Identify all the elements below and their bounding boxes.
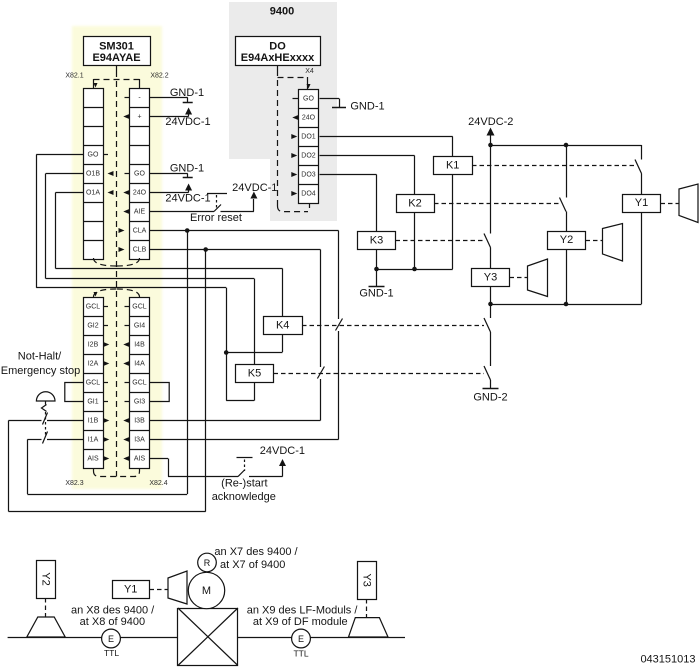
svg-text:E: E [298,634,304,644]
svg-text:GCL: GCL [86,380,101,387]
svg-text:TTL: TTL [104,648,119,658]
svg-text:GCL: GCL [132,304,147,311]
svg-text:Error reset: Error reset [190,212,242,224]
svg-text:AIS: AIS [87,456,99,463]
svg-text:GND-1: GND-1 [170,163,204,175]
svg-text:GND-1: GND-1 [170,87,204,99]
svg-text:Y3: Y3 [484,272,497,284]
svg-text:K2: K2 [408,198,421,210]
svg-text:Emergency stop: Emergency stop [1,365,80,377]
svg-text:O1A: O1A [86,190,100,197]
svg-text:M: M [202,585,211,597]
svg-text:I2A: I2A [88,361,99,368]
svg-text:Y1: Y1 [635,197,648,209]
svg-text:GI2: GI2 [87,323,98,330]
svg-text:24VDC-2: 24VDC-2 [468,116,513,128]
svg-text:X82.1: X82.1 [65,73,83,80]
svg-text:CLB: CLB [133,247,147,254]
svg-text:Y1: Y1 [124,584,137,596]
svg-text:K1: K1 [446,160,459,172]
svg-text:DO1: DO1 [301,134,316,141]
svg-text:I1B: I1B [88,418,99,425]
svg-text:E94AxHExxxx: E94AxHExxxx [241,52,315,64]
svg-text:K3: K3 [370,235,383,247]
svg-text:+: + [137,114,141,121]
svg-text:GND-1: GND-1 [359,288,393,300]
svg-text:GND-2: GND-2 [473,392,507,404]
svg-text:CLA: CLA [133,228,147,235]
svg-text:24VDC-1: 24VDC-1 [232,182,277,194]
svg-text:acknowledge: acknowledge [212,491,276,503]
svg-text:DO: DO [269,41,286,53]
svg-text:GO: GO [88,152,99,159]
svg-text:GCL: GCL [132,380,147,387]
svg-text:GND-1: GND-1 [350,101,384,113]
svg-text:AIE: AIE [134,209,146,216]
svg-text:X4: X4 [305,68,314,75]
svg-text:R: R [204,558,211,568]
svg-text:Y2: Y2 [560,234,573,246]
svg-text:043151013: 043151013 [640,653,695,665]
svg-text:24VDC-1: 24VDC-1 [165,193,210,205]
svg-text:DO2: DO2 [301,153,316,160]
svg-text:I3A: I3A [134,437,145,444]
svg-text:I4B: I4B [134,342,145,349]
svg-text:K4: K4 [276,320,289,332]
svg-text:SM301: SM301 [99,41,134,53]
svg-text:GI4: GI4 [134,323,145,330]
svg-text:GO: GO [303,96,314,103]
svg-text:GO: GO [134,171,145,178]
svg-text:AIS: AIS [134,456,146,463]
svg-text:Y2: Y2 [40,572,52,585]
svg-text:GCL: GCL [86,304,101,311]
svg-text:at X8 of 9400: at X8 of 9400 [80,616,145,628]
svg-text:at X9 of DF module: at X9 of DF module [253,616,348,628]
svg-text:DO3: DO3 [301,172,316,179]
svg-text:(Re-)start: (Re-)start [221,478,267,490]
svg-text:24VDC-1: 24VDC-1 [165,116,210,128]
svg-text:at X7 of 9400: at X7 of 9400 [220,559,285,571]
svg-text:24VDC-1: 24VDC-1 [260,445,305,457]
svg-text:Not-Halt/: Not-Halt/ [18,351,62,363]
svg-text:DO4: DO4 [301,191,316,198]
svg-text:9400: 9400 [270,6,294,18]
svg-text:I2B: I2B [88,342,99,349]
svg-text:TTL: TTL [293,649,308,659]
svg-text:X82.2: X82.2 [150,73,168,80]
svg-text:I4A: I4A [134,361,145,368]
svg-text:an X7 des 9400 /: an X7 des 9400 / [214,546,298,558]
svg-text:I1A: I1A [88,437,99,444]
svg-text:K5: K5 [248,368,261,380]
svg-text:I3B: I3B [134,418,145,425]
svg-text:E: E [108,634,114,644]
svg-text:GI3: GI3 [134,399,145,406]
svg-text:Y3: Y3 [361,573,373,586]
svg-text:E94AYAE: E94AYAE [92,52,140,64]
svg-text:X82.4: X82.4 [149,480,167,487]
svg-text:24O: 24O [302,115,316,122]
svg-text:an X8 des 9400 /: an X8 des 9400 / [71,604,155,616]
svg-text:GI1: GI1 [87,399,98,406]
svg-text:X82.3: X82.3 [65,480,83,487]
svg-text:24O: 24O [133,190,147,197]
svg-text:O1B: O1B [86,171,100,178]
